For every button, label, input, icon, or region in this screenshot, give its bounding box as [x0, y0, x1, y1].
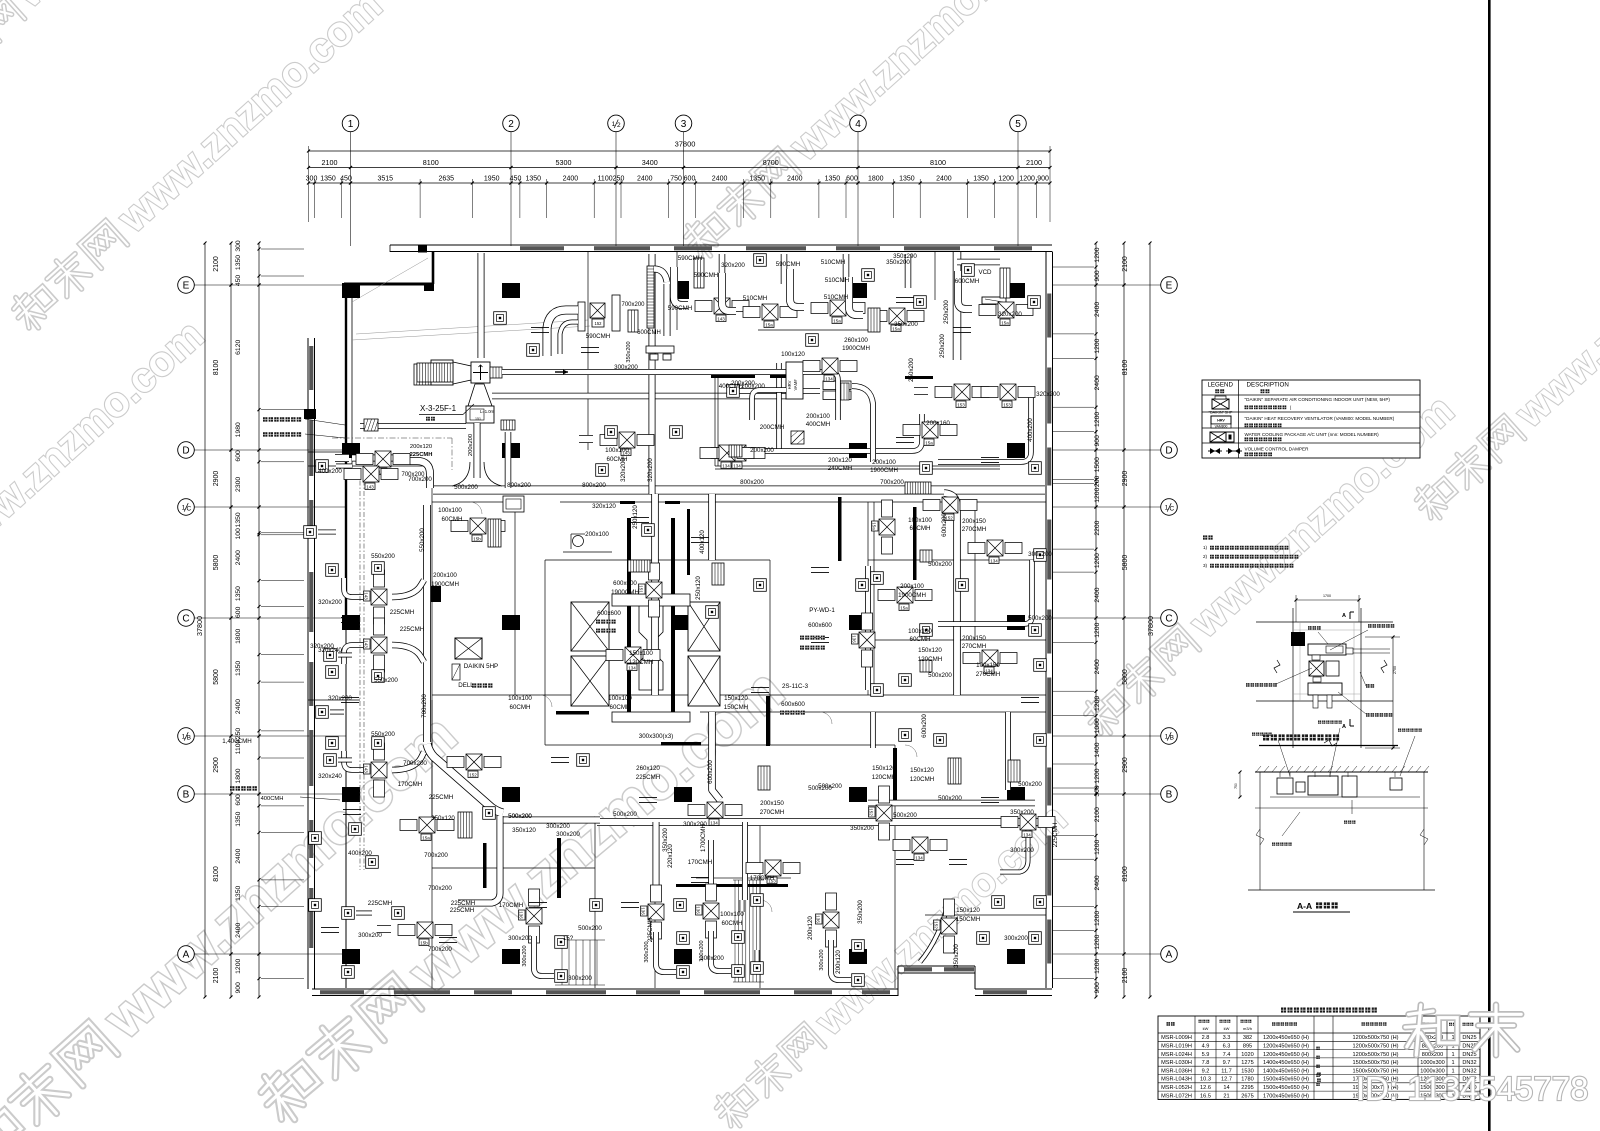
ceiling diffuser	[596, 464, 609, 477]
svg-text:200x100: 200x100	[872, 459, 896, 466]
svg-text:1: 1	[348, 119, 354, 130]
svg-text:200x200: 200x200	[741, 383, 765, 390]
fan coil unit	[903, 422, 957, 446]
svg-text:2400: 2400	[563, 176, 579, 183]
ceiling diffuser	[751, 962, 764, 975]
duct grille	[1000, 268, 1010, 298]
column	[502, 615, 520, 630]
svg-text:14: 14	[1223, 1085, 1229, 1091]
svg-text:1100: 1100	[598, 176, 613, 183]
svg-text:300x200: 300x200	[1010, 847, 1034, 854]
fan coil unit	[878, 587, 932, 611]
top grid dimension chain 37800	[309, 150, 1051, 152]
svg-text:1: 1	[1451, 1060, 1454, 1066]
fan coil unit	[579, 432, 654, 456]
svg-text:2: 2	[508, 119, 514, 130]
svg-text:7.8: 7.8	[1202, 1060, 1210, 1066]
duct top cluster drop 770	[781, 254, 788, 284]
svg-text:700x200: 700x200	[428, 946, 452, 953]
svg-text:150CMH: 150CMH	[724, 704, 748, 711]
svg-text:500x200: 500x200	[893, 812, 917, 819]
svg-text:2.8: 2.8	[1202, 1035, 1210, 1041]
svg-text:A: A	[1342, 724, 1346, 730]
bottom exterior wall step	[897, 966, 899, 996]
svg-text:1200: 1200	[1094, 840, 1101, 855]
duct branch x712 600x200	[708, 494, 716, 560]
AHU pants junction	[452, 462, 470, 486]
top-left canopy wall	[344, 283, 434, 286]
svg-text:450: 450	[235, 275, 242, 287]
fan coil unit	[688, 802, 742, 826]
svg-text:A: A	[1166, 950, 1173, 961]
svg-text:270CMH: 270CMH	[976, 671, 1000, 678]
ceiling diffuser	[590, 899, 603, 912]
diagonal watermark corner fragment	[0, 0, 275, 106]
label PY blocks	[800, 636, 825, 640]
duct stub	[531, 326, 549, 328]
svg-text:100x150: 100x150	[976, 662, 1000, 669]
column	[849, 283, 867, 298]
svg-text:15?: 15?	[563, 935, 574, 942]
svg-text:136: 136	[696, 906, 701, 914]
svg-text:C: C	[186, 506, 191, 513]
bottom exterior wall right part	[975, 988, 1052, 990]
svg-text:8100: 8100	[423, 158, 439, 167]
svg-text:250x200: 250x200	[908, 358, 915, 382]
svg-text:100x100: 100x100	[908, 628, 932, 635]
svg-text:500x200: 500x200	[578, 925, 602, 932]
fan coil unit	[451, 518, 505, 542]
label DELL room	[472, 683, 492, 687]
svg-text:1530: 1530	[1241, 1068, 1253, 1074]
svg-text:270CMH: 270CMH	[962, 643, 986, 650]
svg-text:150x120: 150x120	[724, 695, 748, 702]
svg-text:2400: 2400	[712, 176, 728, 183]
HRV unit VAM	[786, 362, 803, 399]
svg-text:895: 895	[1243, 1044, 1252, 1050]
svg-text:550x200: 550x200	[371, 553, 395, 560]
detail1 supply rect	[1308, 683, 1342, 695]
svg-text:2): 2)	[1203, 554, 1208, 559]
column	[1007, 787, 1025, 802]
svg-text:320x200: 320x200	[318, 599, 342, 606]
svg-text:400x120: 400x120	[699, 530, 706, 554]
HRV duct connections	[803, 372, 838, 420]
svg-text:500x200: 500x200	[454, 484, 478, 491]
duct HRV room loop	[737, 388, 820, 394]
svg-text:MSR-L043H: MSR-L043H	[1161, 1077, 1192, 1083]
detail2 hanger rods	[1279, 772, 1281, 777]
AHU X-3-25F-1 motor grille	[414, 364, 431, 385]
svg-text:DESCRIPTION: DESCRIPTION	[1247, 382, 1289, 389]
svg-text:2100: 2100	[322, 158, 338, 167]
duct 225CMH thin run	[360, 423, 466, 429]
svg-text:1200x450x650 (H): 1200x450x650 (H)	[1263, 1035, 1309, 1041]
duct grille	[758, 766, 770, 790]
svg-text:100x120: 100x120	[781, 351, 805, 358]
column	[674, 787, 692, 802]
duct grille	[905, 482, 931, 494]
duct junction down	[458, 816, 500, 903]
detail drawing A-A section	[1255, 771, 1428, 773]
svg-text:1200: 1200	[1019, 176, 1035, 183]
svg-text:"DAIKIN" 5HP: "DAIKIN" 5HP	[1209, 411, 1233, 415]
svg-text:15a: 15a	[833, 319, 841, 324]
duct grille	[628, 310, 638, 332]
duct left vertical 700x200	[423, 505, 431, 742]
column	[674, 949, 692, 964]
svg-text:200x200: 200x200	[468, 434, 474, 456]
svg-text:220x120: 220x120	[667, 844, 674, 868]
svg-text:600x600: 600x600	[808, 622, 832, 629]
duct stub	[811, 566, 829, 568]
svg-text:320x200: 320x200	[998, 311, 1022, 318]
svg-text:136: 136	[641, 907, 646, 915]
detail1 leader bottom-right	[1366, 713, 1392, 717]
AHU fan box with cross	[471, 362, 490, 383]
fan coil unit	[400, 817, 454, 841]
svg-text:1200: 1200	[1094, 696, 1101, 711]
svg-text:1,400CMH: 1,400CMH	[222, 738, 252, 745]
svg-text:60CMH: 60CMH	[442, 516, 463, 523]
svg-text:750: 750	[670, 176, 682, 183]
svg-text:200x120: 200x120	[807, 916, 814, 940]
ceiling diffuser	[727, 385, 740, 398]
duct top cluster drop 897	[905, 254, 912, 288]
svg-text:2100: 2100	[1122, 256, 1129, 272]
svg-text:300x200: 300x200	[522, 945, 528, 966]
svg-text:500x200: 500x200	[928, 672, 952, 679]
svg-text:2400: 2400	[637, 176, 653, 183]
column	[849, 443, 867, 458]
svg-text:300x200: 300x200	[819, 949, 825, 970]
column	[674, 281, 689, 299]
column	[425, 586, 441, 602]
svg-text:2900: 2900	[213, 471, 220, 487]
svg-text:225CMH: 225CMH	[429, 794, 453, 801]
svg-text:1800: 1800	[235, 768, 242, 783]
svg-text:150x100: 150x100	[629, 650, 653, 657]
svg-text:260x120: 260x120	[636, 765, 660, 772]
schedule table frame	[1158, 1016, 1480, 1099]
detail1 leader left	[1246, 683, 1277, 687]
svg-text:DN32: DN32	[1462, 1060, 1476, 1066]
detail drawing heat pump unit installation plan	[1256, 621, 1393, 623]
fan coil unit	[696, 884, 720, 938]
leader note left outside 3	[230, 786, 257, 790]
svg-text:1200x500x750 (H): 1200x500x750 (H)	[1352, 1035, 1398, 1041]
ceiling diffuser	[754, 254, 767, 267]
svg-text:300x200: 300x200	[508, 935, 532, 942]
svg-text:5.9: 5.9	[1202, 1052, 1210, 1058]
DAIKIN package unit	[455, 638, 482, 659]
ceiling diffuser	[527, 344, 540, 357]
svg-text:151: 151	[475, 417, 481, 421]
ceiling diffuser	[1034, 659, 1047, 672]
elevator shaft 1	[571, 602, 609, 651]
svg-text:37800: 37800	[195, 616, 204, 636]
svg-text:1900CMH: 1900CMH	[870, 467, 898, 474]
detail1 break marks	[1274, 660, 1280, 673]
svg-text:500x200: 500x200	[818, 783, 842, 790]
svg-text:1): 1)	[1203, 545, 1208, 550]
svg-text:225CMH: 225CMH	[410, 452, 433, 458]
svg-text:150x120: 150x120	[918, 647, 942, 654]
duct riser x655 200x200	[651, 494, 659, 695]
duct stub	[581, 346, 599, 348]
svg-text:200x120: 200x120	[410, 444, 432, 450]
duct stub	[639, 796, 657, 798]
duct stub	[691, 536, 709, 538]
svg-text:1900CMH: 1900CMH	[431, 581, 459, 588]
svg-text:225CMH: 225CMH	[368, 900, 392, 907]
svg-text:1200: 1200	[1094, 487, 1101, 502]
svg-text:1500x450x650 (H): 1500x450x650 (H)	[1263, 1077, 1309, 1083]
svg-text:200CMH: 200CMH	[760, 424, 784, 431]
detail1 hanger legs	[1313, 695, 1318, 708]
ceiling diffuser	[326, 737, 339, 750]
svg-text:100x100: 100x100	[438, 507, 462, 514]
duct right room branch	[865, 566, 871, 690]
ceiling diffuser	[871, 684, 884, 697]
fan coil unit	[872, 500, 896, 554]
detail2 floor line	[1248, 889, 1435, 891]
refrigerant pipe risers left	[359, 470, 361, 870]
duct bottom right branches	[920, 900, 949, 962]
svg-text:2900: 2900	[1122, 757, 1129, 773]
svg-text:2400: 2400	[235, 699, 242, 714]
svg-text:320x200: 320x200	[721, 262, 745, 269]
svg-text:1800: 1800	[235, 629, 242, 644]
duct top-right horizontal	[957, 259, 1000, 266]
svg-text:350x120: 350x120	[512, 827, 536, 834]
svg-text:3400: 3400	[642, 158, 658, 167]
svg-text:600CMH: 600CMH	[637, 330, 661, 336]
upper-left room leader lines	[352, 258, 428, 302]
ceiling diffuser	[342, 907, 355, 920]
svg-text:900: 900	[1094, 435, 1101, 447]
shaft black bar	[557, 838, 561, 898]
svg-text:400x200: 400x200	[1027, 418, 1034, 442]
svg-text:1200: 1200	[1094, 911, 1101, 926]
svg-text:700x200: 700x200	[621, 302, 645, 308]
svg-text:C: C	[1165, 614, 1172, 625]
detail1 top dimension	[1296, 599, 1359, 601]
ceiling diffuser	[494, 312, 507, 325]
svg-text:510CMH: 510CMH	[825, 277, 849, 284]
notes heading	[1203, 535, 1213, 539]
svg-text:900: 900	[1094, 982, 1101, 994]
duct stub	[439, 936, 457, 938]
schedule rotated merged cell	[1317, 1078, 1321, 1082]
svg-text:225CMH: 225CMH	[636, 774, 660, 781]
svg-text:134: 134	[710, 821, 718, 826]
svg-text:8100: 8100	[1122, 866, 1129, 882]
schedule table title	[1281, 1007, 1377, 1012]
svg-text:500x200: 500x200	[613, 811, 637, 818]
diagonal watermark center	[247, 657, 795, 1131]
svg-text:700x200: 700x200	[428, 885, 452, 892]
svg-text:1950: 1950	[484, 176, 500, 183]
fan coil unit	[893, 837, 947, 861]
svg-text:1980: 1980	[235, 422, 242, 437]
svg-text:134: 134	[990, 559, 998, 564]
svg-text:8100: 8100	[213, 866, 220, 882]
fan coil unit	[746, 860, 800, 884]
ceiling diffuser	[304, 526, 317, 539]
svg-text:1200: 1200	[998, 176, 1014, 183]
svg-text:1350: 1350	[235, 586, 242, 601]
svg-text:2900: 2900	[213, 757, 220, 773]
ceiling diffuser	[1028, 296, 1041, 309]
svg-text:2400: 2400	[1094, 659, 1101, 674]
svg-text:320x200: 320x200	[310, 643, 334, 650]
top exterior wall	[390, 244, 1052, 246]
svg-text:2200: 2200	[1094, 520, 1101, 535]
svg-text:B: B	[1170, 735, 1174, 742]
duct riser top x652	[649, 254, 656, 494]
svg-text:L=1.0m: L=1.0m	[480, 409, 495, 414]
detail1 black column	[1291, 632, 1305, 646]
svg-text:250x120: 250x120	[695, 576, 702, 600]
svg-text:700x200: 700x200	[408, 476, 432, 483]
cluster bottom header	[646, 346, 674, 353]
svg-text:MSR-L036H: MSR-L036H	[1161, 1068, 1192, 1074]
svg-text:270CMH: 270CMH	[760, 809, 784, 816]
svg-text:600x600: 600x600	[781, 701, 805, 708]
svg-text:A: A	[1342, 613, 1346, 619]
svg-text:400CMH: 400CMH	[261, 796, 284, 802]
core top duct header	[612, 594, 690, 606]
duct stub	[981, 456, 999, 458]
leader note left outside 2	[263, 432, 301, 436]
detail2 leaders	[1262, 742, 1285, 776]
svg-text:1900CMH: 1900CMH	[898, 592, 926, 599]
cluster elbow to column	[654, 269, 667, 282]
fan coil unit	[968, 540, 1022, 564]
duct stub	[621, 901, 639, 903]
fan coil unit	[606, 647, 660, 671]
svg-text:900: 900	[1094, 270, 1101, 282]
duct stub	[551, 756, 569, 758]
svg-text:150x120: 150x120	[956, 907, 980, 914]
ceiling diffuser	[856, 579, 869, 592]
column	[502, 949, 520, 964]
svg-text:200: 200	[1094, 476, 1101, 488]
svg-text:600: 600	[235, 450, 242, 462]
fan coil unit	[674, 267, 749, 322]
svg-text:DAIKIN 5HP: DAIKIN 5HP	[464, 663, 498, 670]
svg-text:134: 134	[1023, 833, 1031, 838]
svg-text:2295: 2295	[1241, 1085, 1253, 1091]
svg-text:HRV: HRV	[1217, 419, 1225, 423]
detail1 duct to louver	[1353, 648, 1390, 650]
svg-text:3: 3	[681, 119, 687, 130]
svg-text:1700x450x650 (H): 1700x450x650 (H)	[1263, 1093, 1309, 1099]
svg-text:2400: 2400	[1094, 302, 1101, 317]
ceiling diffuser	[342, 966, 355, 979]
duct stub	[896, 858, 914, 860]
svg-text:5800: 5800	[1122, 555, 1129, 571]
AHU riser duct 200x200	[474, 423, 481, 478]
detail2 slab hatch	[1256, 766, 1261, 772]
svg-text:250x120: 250x120	[632, 505, 639, 529]
column	[342, 283, 360, 298]
diagonal watermark right-middle	[1075, 386, 1462, 741]
svg-text:3515: 3515	[378, 176, 394, 183]
svg-text:HRV: HRV	[787, 380, 792, 389]
duct stub	[896, 296, 914, 298]
label 600x600 blocks	[596, 620, 616, 624]
duct stub	[691, 876, 709, 878]
svg-text:2635: 2635	[439, 176, 455, 183]
refrigerant dash-dot	[332, 437, 452, 439]
fan coil unit	[816, 893, 840, 947]
svg-text:700x200: 700x200	[424, 852, 448, 859]
svg-text:1020: 1020	[1241, 1052, 1253, 1058]
svg-text:134: 134	[628, 666, 636, 671]
fan coil unit	[711, 445, 765, 469]
svg-text:200x160: 200x160	[926, 420, 950, 427]
sheet border bar	[1488, 0, 1491, 1131]
AHU down cone	[468, 384, 492, 406]
ceiling diffuser	[992, 896, 1005, 909]
ceiling diffuser	[914, 296, 927, 309]
duct grille	[920, 550, 932, 562]
diagonal watermark far-right	[1407, 188, 1600, 526]
svg-text:4.9: 4.9	[1202, 1044, 1210, 1050]
svg-text:134: 134	[722, 464, 730, 469]
ceiling diffuser	[674, 899, 687, 912]
svg-text:MSR-L052H: MSR-L052H	[1161, 1085, 1192, 1091]
slash diffuser box	[791, 431, 804, 444]
cluster riser grille	[647, 266, 654, 328]
column	[502, 787, 520, 802]
svg-text:1000: 1000	[1094, 718, 1101, 733]
svg-text:143: 143	[364, 765, 369, 773]
svg-text:12.7: 12.7	[1221, 1077, 1232, 1083]
svg-text:1350: 1350	[320, 176, 336, 183]
fan coil unit	[364, 618, 388, 672]
svg-text:300x200: 300x200	[683, 821, 707, 828]
svg-text:100x100: 100x100	[508, 695, 532, 702]
legend row3 symbol packaged unit	[1210, 432, 1226, 442]
svg-text:225CMH: 225CMH	[450, 907, 474, 914]
svg-text:225CMH: 225CMH	[390, 609, 414, 616]
column	[502, 283, 520, 298]
side dimension chain totals	[1123, 243, 1125, 997]
svg-text:250x200: 250x200	[939, 334, 946, 358]
ceiling diffuser	[977, 932, 990, 945]
ceiling diffuser	[642, 524, 655, 537]
svg-text:150x120: 150x120	[910, 767, 934, 774]
svg-text:1200: 1200	[235, 959, 242, 974]
svg-text:300x200: 300x200	[644, 941, 650, 962]
fan coil unit	[963, 650, 1017, 674]
detail1 caption	[1263, 734, 1339, 740]
svg-text:D: D	[182, 446, 189, 457]
svg-text:7.4: 7.4	[1223, 1052, 1231, 1058]
svg-text:1: 1	[1451, 1052, 1454, 1058]
svg-text:590CMH: 590CMH	[668, 305, 692, 312]
svg-text:2100: 2100	[1026, 158, 1042, 167]
duct right room header	[868, 800, 1035, 807]
duct right room L-branch lower	[938, 560, 1032, 624]
svg-text:150CMH: 150CMH	[956, 916, 980, 923]
svg-text:8700: 8700	[763, 158, 779, 167]
svg-text:900: 900	[1037, 176, 1049, 183]
svg-text:1350: 1350	[973, 176, 989, 183]
